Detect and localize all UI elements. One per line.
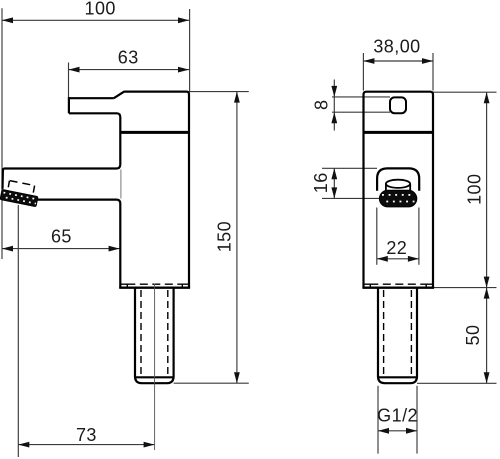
lever top edge with chamfer [114, 92, 189, 288]
svg-text:100: 100 [85, 0, 116, 18]
svg-text:16: 16 [311, 172, 331, 193]
extension line 38 left [362, 53, 364, 91]
dim 65 line [2, 248, 120, 250]
dim 50 arrow top [484, 288, 490, 299]
dim 150 arrow bottom [234, 372, 240, 383]
dim 65 arrow right [109, 246, 120, 252]
dim 100 arrow bottom [484, 277, 490, 288]
aerator cylinder left side [385, 184, 387, 192]
extension line 150 bottom [174, 382, 249, 384]
svg-text:63: 63 [118, 47, 139, 67]
extension line 16 top [322, 167, 377, 169]
base corner notch right [182, 284, 189, 288]
dim 38,00 line [363, 60, 433, 62]
aerator knurl band front [379, 190, 416, 207]
shank thread hidden right [167, 290, 169, 376]
shank outline [135, 288, 174, 384]
svg-text:G1/2: G1/2 [377, 406, 418, 426]
svg-text:65: 65 [51, 226, 72, 246]
dim 73 line [18, 444, 154, 446]
extension line aerator (x=18.3) [17, 205, 19, 457]
aerator hidden outline top [10, 181, 35, 186]
lever bottom + body left edge + spout top edge + tip face [3, 113, 121, 189]
dim 38,00 arrow right [422, 58, 433, 64]
dim 100/50 line [486, 92, 488, 383]
dim 100 arrow right [178, 17, 189, 23]
dim 38,00 arrow left [363, 58, 374, 64]
extension line G1/2 right [416, 386, 418, 454]
dim G1/2 arrow left [378, 428, 389, 434]
dim 63 line [69, 69, 190, 71]
shank thread hidden left [140, 290, 142, 376]
dim 22 arrow right [408, 256, 419, 262]
dim 100 arrow left [2, 17, 13, 23]
tangent line body/spout [120, 170, 122, 199]
dim G1/2 arrow right [406, 428, 417, 434]
dim 16 line [333, 168, 335, 198]
base notch front left [364, 284, 371, 288]
extension line 100/50 middle [433, 287, 497, 289]
svg-text:100: 100 [465, 174, 485, 205]
extension line 22 right [418, 208, 420, 265]
lever top-left edge [69, 97, 114, 99]
dim 65 arrow left [2, 246, 13, 252]
svg-text:38,00: 38,00 [373, 36, 420, 56]
dim G1/2 line [378, 430, 417, 432]
dim 100 line [2, 19, 189, 21]
shank front outline [378, 288, 417, 384]
aerator hidden outline right [33, 186, 34, 193]
shank front thread hidden left [383, 290, 385, 376]
svg-text:8: 8 [312, 99, 332, 109]
extension line 8 bottom [332, 111, 390, 113]
dim 100 arrow top [484, 92, 490, 103]
extension line 150 top [189, 91, 249, 93]
dim 16 arrow up [331, 168, 337, 179]
extension line 16 bottom [322, 197, 379, 199]
hidden base line front [370, 283, 426, 285]
extension line 100 right top [433, 91, 497, 93]
aerator hidden outline left [8, 181, 9, 187]
extension line 63 left [68, 63, 70, 98]
handle button [390, 97, 406, 113]
dim 73 arrow right [144, 442, 155, 448]
extension line 22 left [376, 208, 378, 265]
shank centerline [154, 284, 156, 451]
body joint line front [364, 131, 434, 134]
svg-text:22: 22 [386, 238, 407, 258]
dim 63 arrow right [178, 67, 189, 73]
shank front chamfer [378, 376, 417, 378]
extension line body right (x=189.6) [189, 9, 191, 91]
dim 150 line [236, 92, 238, 384]
base notch front right [426, 284, 433, 288]
dim 50 arrow bottom [484, 372, 490, 383]
knurl white specks row2 [382, 201, 415, 203]
hidden base line [127, 283, 182, 285]
dim 22 arrow left [377, 256, 388, 262]
svg-text:150: 150 [215, 221, 235, 252]
shank front thread hidden right [410, 290, 412, 376]
shank chamfer line [135, 376, 173, 378]
dim 8 line [333, 80, 335, 131]
svg-text:50: 50 [463, 325, 483, 346]
extension line 8 top [332, 96, 390, 98]
body bottom edge [119, 287, 190, 289]
extension line G1/2 left [377, 386, 379, 454]
extension line 50 bottom [417, 382, 497, 384]
body front outline [364, 92, 434, 288]
aerator cylinder top ellipse [386, 180, 410, 188]
dim 8 arrow down [331, 86, 337, 97]
knurl white specks row1 [382, 194, 415, 196]
svg-text:73: 73 [76, 425, 97, 445]
base corner notch left [120, 284, 127, 288]
dim 63 arrow left [69, 67, 80, 73]
dim 16 arrow down [331, 187, 337, 198]
body joint line [120, 131, 189, 134]
body bottom edge front [362, 287, 434, 289]
aerator knurl band [0, 189, 38, 206]
dim 8 arrow up [331, 112, 337, 123]
extension line spout tip (x=2) [1, 8, 3, 259]
dim 22 line [377, 258, 419, 260]
spout bottom edge + lower body left edge [37, 200, 120, 288]
lever left face [68, 97, 70, 113]
spout outlet arch [377, 168, 419, 190]
dim 73 arrow left [18, 442, 29, 448]
extension line 38 right [432, 53, 434, 91]
dim 150 arrow top [234, 92, 240, 103]
aerator cylinder right side [409, 184, 411, 192]
